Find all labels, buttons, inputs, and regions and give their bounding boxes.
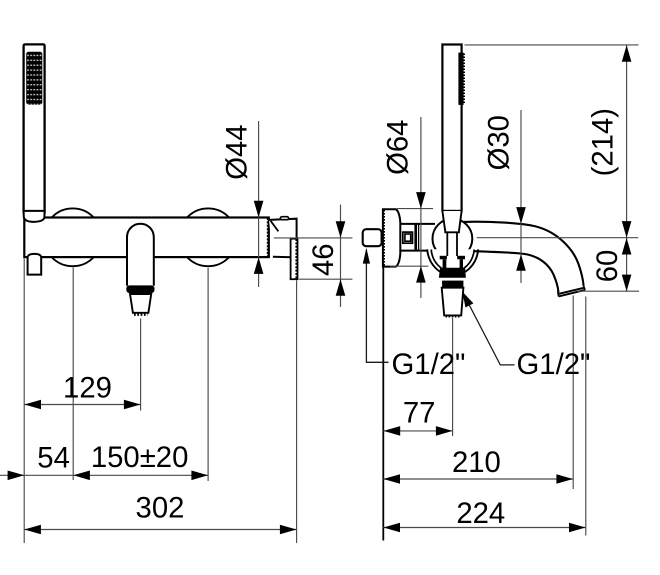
outlet rim end caps [558, 286, 585, 297]
arrow Ø64 bottom [416, 266, 426, 283]
arrow 60 bottom [622, 275, 632, 292]
svg-text:224: 224 [456, 497, 505, 530]
spout bottom edge [475, 251, 559, 292]
extension line x296 lever face [296, 280, 298, 543]
holder tab right [457, 256, 465, 259]
dim line 77 [383, 430, 452, 432]
arrow Ø44 top [254, 201, 264, 218]
svg-text:129: 129 [63, 372, 112, 405]
dim line Ø44 [258, 121, 260, 287]
body right face knurl [267, 218, 269, 257]
dim line 210 [383, 478, 573, 480]
bracket square outer [403, 232, 413, 243]
aerator band [126, 285, 154, 293]
svg-text:Ø64: Ø64 [382, 120, 415, 175]
arrow Ø64 top [416, 192, 426, 209]
spout top edge [464, 222, 584, 286]
escutcheon circle left (Ø64) [44, 208, 102, 266]
tick Ø64 bottom [390, 265, 428, 267]
tick spout outlet y291 [577, 290, 639, 292]
aerator tip serration [134, 313, 148, 316]
escutcheon circle right (Ø64) [179, 208, 237, 266]
extension line x585 spout tip [585, 297, 587, 536]
arrow Ø44 bottom [254, 257, 264, 274]
hose end taper [442, 288, 464, 316]
arrow 214 bottom [622, 221, 632, 238]
hose nut black band [439, 268, 466, 278]
lever outer edge knurl [295, 239, 297, 279]
hub tube top edge [400, 223, 435, 225]
wand spray side strip [458, 53, 463, 105]
arrow leader1 [363, 248, 370, 264]
arrow 210 left [383, 474, 400, 484]
dim line Ø30 [520, 110, 522, 283]
spout outlet rim [558, 288, 585, 297]
arrow 77 left [384, 426, 401, 436]
arrow 150 right [191, 471, 208, 481]
wand spray face [26, 52, 42, 105]
svg-text:G1/2": G1/2" [392, 348, 466, 381]
dim line Ø64 [420, 117, 422, 298]
leader G1/2 left [366, 250, 388, 363]
arrow 302 right [280, 525, 297, 535]
mixer body bar [24, 218, 268, 258]
aerator tip [130, 294, 151, 313]
arrow Ø30 top [516, 207, 526, 224]
tick centreline y237 [477, 237, 639, 239]
svg-text:Ø30: Ø30 [483, 115, 516, 170]
arrow 60 top [622, 238, 632, 255]
svg-text:302: 302 [136, 492, 185, 525]
hose port below body [28, 254, 42, 275]
spray strip serration [463, 54, 465, 105]
wand bottom cap [24, 211, 45, 222]
svg-text:60: 60 [591, 250, 624, 283]
indicator bump on cone [280, 217, 288, 220]
holder cup outer arc [427, 249, 478, 275]
svg-text:(214): (214) [587, 108, 620, 176]
flange face hatch [383, 210, 385, 266]
wand connector tube [447, 232, 457, 256]
dim line 224 [383, 527, 586, 529]
arrow 302 left [24, 525, 41, 535]
arrow 224 right [569, 523, 586, 533]
leader G1/2 right [463, 294, 514, 365]
bracket square inner [405, 234, 411, 241]
wall flange side profile [383, 209, 400, 266]
tick 46 bottom [299, 278, 352, 280]
wand side column [442, 45, 461, 211]
svg-text:G1/2": G1/2" [517, 348, 591, 381]
holder cup inner arc [431, 250, 474, 272]
arrow Ø30 bottom [516, 254, 526, 271]
svg-text:210: 210 [452, 446, 501, 479]
arrow 46 top [336, 221, 346, 238]
extension line x208 [207, 268, 209, 481]
hose band second [442, 281, 463, 288]
arrow 224 left [383, 523, 400, 533]
hub joint line [418, 224, 420, 251]
hose end serration [446, 316, 460, 318]
dim line 214-60 [626, 45, 628, 291]
hub joint band [414, 224, 417, 251]
hand shower wand [24, 44, 45, 212]
connector lower left bar [443, 259, 447, 268]
arrow 210 right [556, 474, 573, 484]
holder tab left [440, 256, 447, 259]
hub tube bottom edge [400, 250, 434, 252]
arrow 77 right [436, 426, 453, 436]
extension line x452 hose centre [452, 318, 454, 436]
arrow 46 bottom [336, 279, 346, 296]
svg-text:Ø44: Ø44 [221, 124, 254, 179]
extension line x73 [72, 268, 74, 481]
arrow 150 left [73, 471, 90, 481]
arrow 129 right [124, 400, 141, 410]
body ball circle [433, 219, 473, 259]
tick top of wand [465, 44, 639, 46]
dim line 54 and 150 [0, 474, 208, 476]
connector lower right bar [460, 259, 463, 268]
dim line 46 [340, 205, 342, 308]
tick 46 top [274, 237, 353, 239]
arrow 54 outside [8, 471, 25, 481]
tub spout tube [127, 224, 154, 286]
svg-text:150±20: 150±20 [91, 441, 189, 474]
tick Ø64 top [397, 208, 433, 210]
extension line x24 [23, 259, 25, 544]
cartridge cone [269, 219, 297, 258]
wall extension line [382, 267, 384, 541]
svg-text:46: 46 [307, 243, 340, 276]
svg-text:77: 77 [403, 397, 436, 430]
lever handle bar [291, 239, 298, 280]
extension line x573 outlet centre [572, 296, 574, 490]
dim line 302 [24, 529, 296, 531]
wand side taper [442, 211, 461, 232]
extension line x140 spout centre [140, 319, 142, 411]
arrow 214 top [622, 45, 632, 62]
diverter knob [363, 229, 382, 246]
arrow leader2 [462, 292, 473, 308]
svg-text:54: 54 [37, 441, 70, 474]
cone diagonal edge [271, 221, 279, 232]
dim line 129 [24, 404, 140, 406]
arrow 129 left [24, 400, 41, 410]
